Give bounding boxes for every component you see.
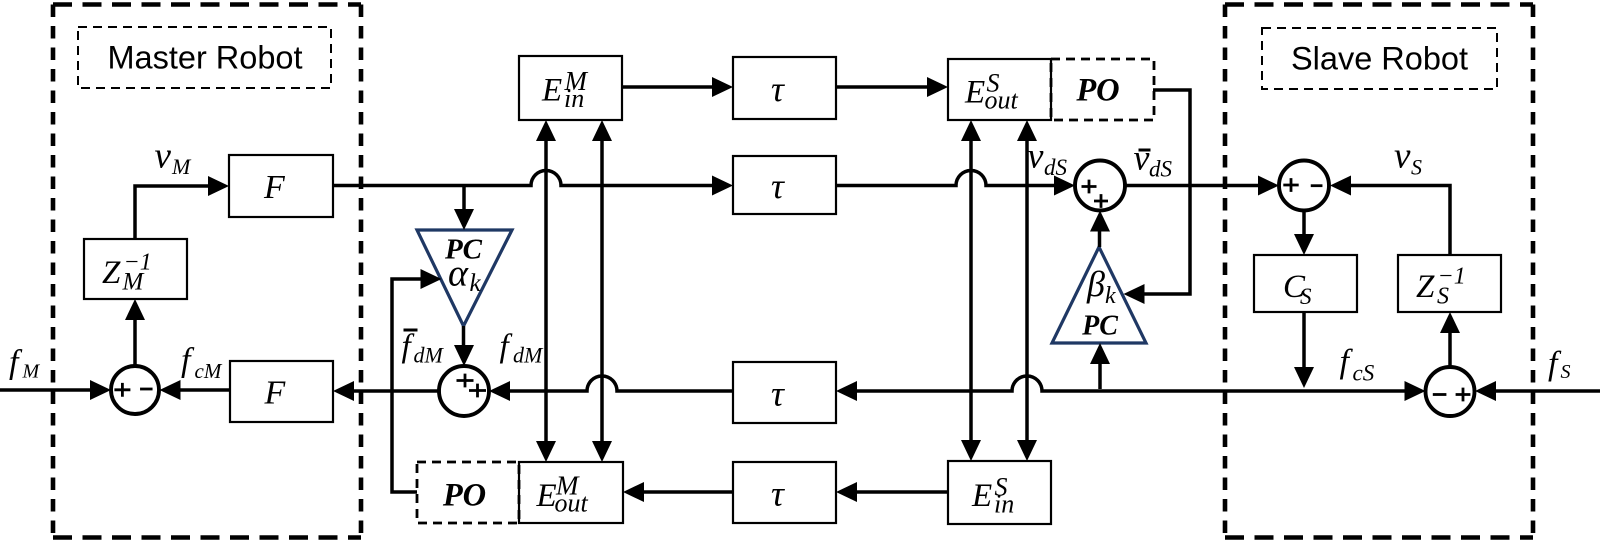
wire tau4 to EoutM xyxy=(623,482,733,502)
svg-text:dS: dS xyxy=(1149,157,1173,182)
svg-text:dM: dM xyxy=(513,343,544,368)
svg-text:v: v xyxy=(1394,136,1411,177)
block F bottom xyxy=(230,361,333,422)
svg-text:β: β xyxy=(1086,264,1105,304)
slave robot label box xyxy=(1262,28,1497,89)
label fcM xyxy=(181,342,223,383)
master robot label xyxy=(107,40,302,76)
svg-text:cS: cS xyxy=(1353,361,1375,386)
wire PO top to PC beta xyxy=(1124,90,1191,304)
energy line master right xyxy=(592,120,612,462)
label vdS xyxy=(1028,136,1068,181)
wire vdS sum to slave sum xyxy=(1125,176,1279,196)
svg-text:in: in xyxy=(564,84,584,113)
svg-text:F: F xyxy=(264,375,287,412)
slave robot label xyxy=(1291,41,1468,77)
svg-text:Z: Z xyxy=(102,255,121,291)
block tau1 xyxy=(733,57,836,119)
block ZM inverse xyxy=(84,239,187,299)
observer PO bottom xyxy=(417,462,519,523)
svg-text:M: M xyxy=(22,361,41,383)
wire slave force sum to ZS xyxy=(1440,312,1460,367)
svg-text:S: S xyxy=(1561,361,1571,383)
svg-text:F: F xyxy=(263,169,286,206)
master robot label box xyxy=(78,27,331,88)
svg-text:dS: dS xyxy=(1044,155,1068,180)
svg-text:τ: τ xyxy=(771,166,785,206)
svg-text:PO: PO xyxy=(442,478,486,514)
block EinM xyxy=(519,56,622,120)
wire fdM sum to F bottom xyxy=(333,381,439,401)
svg-text:v: v xyxy=(1028,136,1044,176)
svg-text:M: M xyxy=(122,269,145,296)
wire F top to tau2 with hop xyxy=(333,171,733,196)
svg-text:S: S xyxy=(1411,155,1422,180)
svg-text:Master Robot: Master Robot xyxy=(107,40,302,76)
block EinS xyxy=(948,461,1051,524)
wire tau1 to EoutS xyxy=(836,77,948,97)
svg-text:v: v xyxy=(1134,138,1150,178)
sum junction slave velocity xyxy=(1279,161,1329,211)
svg-text:Slave Robot: Slave Robot xyxy=(1291,41,1468,77)
svg-text:dM: dM xyxy=(414,343,445,368)
energy line master left xyxy=(536,120,556,462)
label fdM bar xyxy=(402,329,445,368)
block tau4 xyxy=(733,462,836,523)
svg-text:in: in xyxy=(994,490,1014,519)
energy line slave right xyxy=(1017,120,1037,461)
sum junction slave force xyxy=(1426,367,1475,416)
svg-text:S: S xyxy=(1437,284,1449,310)
wire slave force line with hops xyxy=(836,376,1426,401)
block CS xyxy=(1254,255,1357,312)
block tau3 xyxy=(733,362,836,423)
sum junction vdS xyxy=(1075,161,1125,211)
controller PC alpha triangle xyxy=(417,230,512,326)
label fS xyxy=(1548,346,1571,384)
svg-text:τ: τ xyxy=(771,474,785,514)
wire vS feedback xyxy=(1330,176,1450,256)
wire master sum to ZM xyxy=(125,299,145,366)
wire fS input xyxy=(1475,381,1600,401)
svg-text:E: E xyxy=(541,73,562,109)
sum junction master force xyxy=(111,366,159,414)
wire fcM F bottom to master sum xyxy=(160,380,231,400)
svg-text:Z: Z xyxy=(1416,269,1435,305)
block tau2 xyxy=(733,156,836,214)
wire PC beta to vdS sum xyxy=(1090,211,1110,248)
svg-text:k: k xyxy=(470,270,482,297)
svg-text:PC: PC xyxy=(1081,311,1118,342)
label vM xyxy=(155,136,193,180)
svg-text:τ: τ xyxy=(771,374,785,414)
block F top xyxy=(229,155,333,217)
wire fM input xyxy=(0,380,111,400)
energy line slave left xyxy=(961,120,981,461)
svg-text:k: k xyxy=(1105,283,1116,309)
svg-text:out: out xyxy=(985,86,1019,115)
block ZS inverse xyxy=(1398,255,1501,312)
svg-text:out: out xyxy=(555,489,589,518)
sum junction fdM xyxy=(439,366,489,416)
wire tau3 to fdM sum with hop xyxy=(489,376,733,401)
label fcS xyxy=(1340,344,1375,386)
svg-text:E: E xyxy=(536,478,557,514)
svg-text:PO: PO xyxy=(1075,73,1119,109)
slave robot region box xyxy=(1225,5,1533,538)
svg-text:τ: τ xyxy=(771,69,785,109)
svg-text:M: M xyxy=(171,154,192,179)
block EoutS xyxy=(948,59,1051,120)
svg-text:α: α xyxy=(448,253,469,295)
wire branch to PC beta xyxy=(1090,343,1110,389)
wire EinS to tau4 xyxy=(836,482,948,502)
svg-text:v: v xyxy=(155,136,172,177)
label fM xyxy=(9,344,41,383)
wire tau2 to vdS sum with hop xyxy=(836,171,1075,196)
svg-text:cM: cM xyxy=(195,359,223,383)
master robot region box xyxy=(53,5,361,538)
block EoutM xyxy=(519,462,623,523)
label fdM xyxy=(500,329,545,368)
label vdS bar xyxy=(1134,138,1173,182)
svg-text:S: S xyxy=(1300,284,1312,309)
wire branch to PC alpha xyxy=(454,186,474,231)
controller PC beta triangle xyxy=(1052,247,1146,343)
wire slave sum to CS xyxy=(1294,211,1314,256)
wire CS output fcS xyxy=(1294,312,1314,388)
wire EinM to tau1 xyxy=(622,77,733,97)
wire ZM to F top xyxy=(135,176,229,239)
svg-text:E: E xyxy=(964,75,985,111)
wire PC alpha to fdM sum xyxy=(454,326,474,366)
svg-text:E: E xyxy=(971,478,992,514)
wire PO bottom to PC alpha xyxy=(392,269,442,492)
label vS xyxy=(1394,136,1422,180)
observer PO top xyxy=(1051,59,1154,120)
